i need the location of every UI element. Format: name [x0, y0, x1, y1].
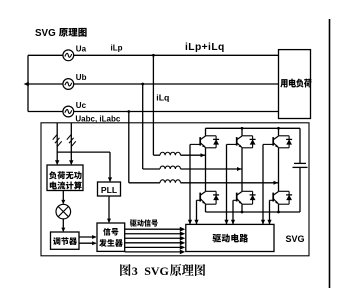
arrowhead regulator lower	[92, 241, 96, 245]
node phase C tap junction	[127, 110, 130, 113]
wire multiplier to regulator	[62, 219, 64, 231]
arrowhead into leg 1 midpoint	[201, 153, 206, 157]
wire leg 3 midpoint vertical	[278, 148, 280, 192]
arrowhead into leg 2 midpoint	[237, 167, 242, 171]
title 原理图	[59, 28, 87, 37]
wire branch to PLL horizontal	[57, 151, 110, 153]
caption 原理图	[170, 264, 205, 276]
node bottom rail leg 3	[277, 211, 280, 214]
block PLL	[98, 182, 121, 196]
svg-text:Ub: Ub	[76, 73, 87, 82]
wire top rail to IGBT Q1 collector	[205, 128, 207, 136]
three-phase slash marks on sampling line 1	[53, 134, 62, 146]
wire DC+ top rail	[206, 127, 301, 129]
arrowhead drive signal 1	[180, 227, 185, 232]
wire gate drive upper leg 1	[189, 144, 191, 224]
label 驱动信号 (drive signals)	[130, 219, 158, 226]
IGBT Q4 (lower, leg 1) with antiparallel diode	[197, 191, 220, 204]
wire gate drive lower leg 1	[196, 200, 198, 224]
wire drive signal 1	[125, 228, 180, 230]
wire sampling line 2 from box top	[70, 123, 72, 164]
arrowhead drive signal 3	[180, 236, 185, 241]
IGBT Q5 (lower, leg 2) with antiparallel diode	[233, 191, 256, 204]
wire left bus vertical	[27, 55, 29, 111]
SVG system enclosure box	[41, 123, 309, 256]
wire DC- bottom rail	[206, 211, 301, 213]
svg-text:iLp: iLp	[111, 44, 123, 53]
wire inductor L3 to leg 3 midpoint	[181, 182, 279, 184]
arrowhead gate lower leg 3 into drive box	[267, 220, 271, 225]
IGBT Q6 (lower, leg 3) with antiparallel diode	[270, 191, 293, 204]
node top rail leg 2	[241, 127, 244, 130]
block 调节器 (regulator)	[51, 232, 80, 249]
block 信号发生器 (signal generator)	[97, 223, 125, 251]
wire tap phase C down to inductor row 3	[128, 112, 130, 183]
load box 用电负荷	[279, 50, 311, 119]
svg-text:3: 3	[132, 264, 138, 278]
wire tap phase A down to inductor row 1	[152, 55, 154, 155]
wire to inductor L2	[143, 168, 160, 170]
wire phase C line	[28, 111, 279, 113]
arrowhead into leg 3 midpoint	[274, 181, 279, 185]
wire top rail to IGBT Q3 collector	[278, 128, 280, 136]
wire IGBT Q5 emitter to bottom rail	[241, 204, 243, 212]
AC source Uc	[63, 106, 74, 117]
arrowhead drive signal 4	[180, 240, 185, 245]
wire drive signal 6	[125, 251, 180, 253]
arrowhead drive signal 2	[180, 231, 185, 236]
node phase B tap junction	[141, 83, 144, 86]
node phase A tap junction	[152, 54, 155, 57]
IGBT Q2 (upper, leg 2) with antiparallel diode	[227, 136, 256, 148]
wire leg 1 midpoint vertical	[205, 148, 207, 192]
arrowhead sampling 1 into computation box	[55, 160, 59, 165]
wire capacitor top lead	[299, 128, 301, 163]
svg-text:PLL: PLL	[101, 185, 117, 195]
wire inductor L2 to leg 2 midpoint	[181, 168, 243, 170]
svg-text:iLq: iLq	[156, 93, 169, 103]
label 负荷无功	[49, 171, 82, 179]
three-phase slash marks on sampling line 2	[67, 134, 76, 146]
wire PLL to signal generator	[108, 196, 110, 222]
capacitor C (DC link)	[293, 163, 308, 167]
arrowhead gate lower leg 2 into drive box	[231, 220, 235, 225]
IGBT Q1 (upper, leg 1) with antiparallel diode	[190, 136, 219, 148]
multiplier node (circle with X)	[56, 204, 71, 219]
svg-text:SVG: SVG	[286, 234, 305, 244]
inductor L2	[160, 166, 181, 169]
wire drive signal 2	[125, 233, 180, 235]
wire drive signal 5	[125, 246, 180, 248]
svg-text:Uc: Uc	[76, 101, 87, 110]
wire IGBT Q6 emitter to bottom rail	[278, 204, 280, 212]
wire regulator to signal generator lower	[79, 242, 96, 244]
arrowhead drive signal 6	[180, 250, 185, 255]
node top rail leg 3	[277, 127, 280, 130]
AC source Ua	[63, 50, 74, 61]
wire regulator to signal generator upper	[79, 236, 96, 238]
wire branch to PLL vertical	[109, 152, 111, 181]
svg-text:Ua: Ua	[76, 45, 87, 54]
arrowhead drive signal 5	[180, 245, 185, 250]
label 驱动电路	[212, 234, 248, 243]
inductor L3	[160, 180, 181, 183]
wire leg 2 midpoint vertical	[241, 148, 243, 192]
arrowhead into regulator	[61, 228, 65, 232]
arrowhead into PLL	[108, 177, 112, 182]
svg-text:iLp+iLq: iLp+iLq	[185, 42, 225, 53]
label 用电负荷	[280, 79, 311, 88]
arrowhead gate upper leg 2 into drive box	[224, 220, 228, 225]
arrowhead gate upper leg 3 into drive box	[261, 220, 265, 225]
wire gate drive lower leg 3	[269, 200, 271, 224]
arrowhead sampling 2 into computation box	[69, 160, 73, 165]
label 调节器	[53, 237, 77, 245]
AC source Ub	[63, 79, 74, 90]
label 发生器	[99, 239, 123, 247]
wire gate drive lower leg 2	[232, 200, 234, 224]
wire to inductor L3	[129, 182, 160, 184]
wire gate drive upper leg 3	[262, 144, 264, 224]
wire capacitor bottom lead	[299, 167, 301, 212]
wire to inductor L1	[153, 154, 160, 156]
arrowhead into multiplier	[61, 200, 65, 204]
IGBT Q3 (upper, leg 3) with antiparallel diode	[263, 136, 292, 148]
svg-text:SVG: SVG	[35, 28, 56, 39]
node bottom rail leg 2	[241, 211, 244, 214]
svg-text:SVG: SVG	[144, 264, 169, 278]
wire IGBT Q4 emitter to bottom rail	[205, 204, 207, 212]
block 负荷无功电流计算 (load reactive current computation)	[47, 165, 83, 191]
arrowhead gate lower leg 1 into drive box	[194, 220, 198, 225]
wire inductor L1 to leg 1 midpoint	[181, 154, 206, 156]
wire tap phase B down to inductor row 2	[142, 84, 144, 169]
wire drive signal 3	[125, 237, 180, 239]
wire top rail to IGBT Q2 collector	[241, 128, 243, 136]
arrowhead PLL into signal generator	[107, 219, 111, 223]
arrowhead on bus at phase B junction	[24, 82, 29, 86]
inductor L1	[160, 152, 181, 155]
wire phase B line	[28, 83, 279, 85]
block 驱动电路 (gate drive circuit)	[186, 224, 274, 251]
wire drive signal 4	[125, 242, 180, 244]
wire computation box to multiplier	[62, 191, 64, 204]
arrowhead regulator upper	[92, 235, 96, 239]
label 电流计算	[50, 181, 82, 189]
wire right border vertical line	[329, 19, 331, 288]
wire phase A line	[28, 54, 279, 56]
wire sampling line 1 from box top	[56, 123, 58, 164]
arrowhead gate upper leg 1 into drive box	[188, 220, 192, 225]
wire gate drive upper leg 2	[226, 144, 228, 224]
caption 图	[120, 264, 130, 276]
label 信号	[103, 228, 118, 236]
